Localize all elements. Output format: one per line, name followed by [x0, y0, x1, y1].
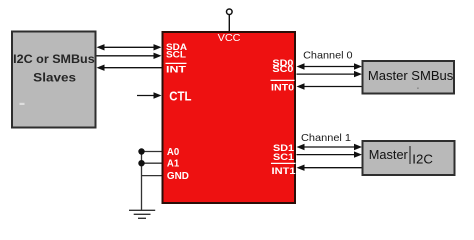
Master SMBus box	[363, 61, 455, 94]
wire INT (to slaves)	[97, 65, 162, 71]
svg-text:Master SMBus: Master SMBus	[368, 68, 454, 83]
wire SD1 (bidirectional)	[297, 144, 363, 150]
pin label INT (active low)	[166, 63, 187, 75]
wire to ground	[141, 152, 143, 211]
wire INT0 (to U1)	[297, 83, 363, 89]
wire SDA (bidirectional)	[97, 44, 162, 50]
svg-text:I2C: I2C	[412, 152, 433, 167]
wire SC1 (to master)	[297, 151, 363, 157]
ground	[129, 210, 155, 218]
pin label INT0 (active low)	[271, 80, 295, 93]
wire INT1 (to U1)	[297, 165, 363, 171]
svg-text:INT: INT	[166, 65, 186, 76]
artifact dot on Master SMBus box	[417, 88, 419, 89]
svg-text:VCC: VCC	[218, 32, 241, 44]
svg-text:Channel 0: Channel 0	[303, 50, 353, 62]
wire A1	[142, 162, 162, 164]
Master I2C label	[369, 146, 433, 167]
junction dot A1	[138, 160, 144, 166]
svg-text:GND: GND	[167, 171, 189, 182]
svg-text:Slaves: Slaves	[33, 71, 76, 85]
wire A0	[142, 151, 162, 153]
wire CTL input	[137, 92, 162, 98]
svg-text:SCL: SCL	[166, 50, 186, 61]
svg-text:CTL: CTL	[169, 89, 191, 104]
svg-text:SC1: SC1	[273, 152, 295, 163]
pin label INT1 (active low)	[271, 163, 296, 177]
svg-text:A0: A0	[167, 147, 180, 158]
svg-text:INT1: INT1	[272, 166, 297, 177]
wire SC0 (to master)	[297, 71, 363, 77]
svg-text:INT0: INT0	[271, 82, 294, 93]
wire SCL (into U1)	[97, 53, 162, 59]
junction dot A0	[138, 148, 144, 154]
VCC terminal circle	[227, 9, 233, 15]
Master I2C box	[363, 141, 455, 175]
I2C/SMBus slaves box	[12, 32, 96, 128]
svg-text:Channel 1: Channel 1	[301, 132, 351, 144]
multiplexer U1	[163, 32, 296, 203]
svg-text:I2C or SMBus: I2C or SMBus	[13, 52, 95, 66]
svg-text:Master: Master	[369, 147, 409, 162]
wire SD0 (bidirectional)	[297, 63, 363, 69]
svg-text:SC0: SC0	[272, 64, 293, 75]
svg-text:A1: A1	[167, 159, 180, 170]
wire GND	[142, 175, 162, 177]
artifact dash on slaves box	[20, 103, 25, 105]
wire VCC to U1	[228, 15, 230, 31]
